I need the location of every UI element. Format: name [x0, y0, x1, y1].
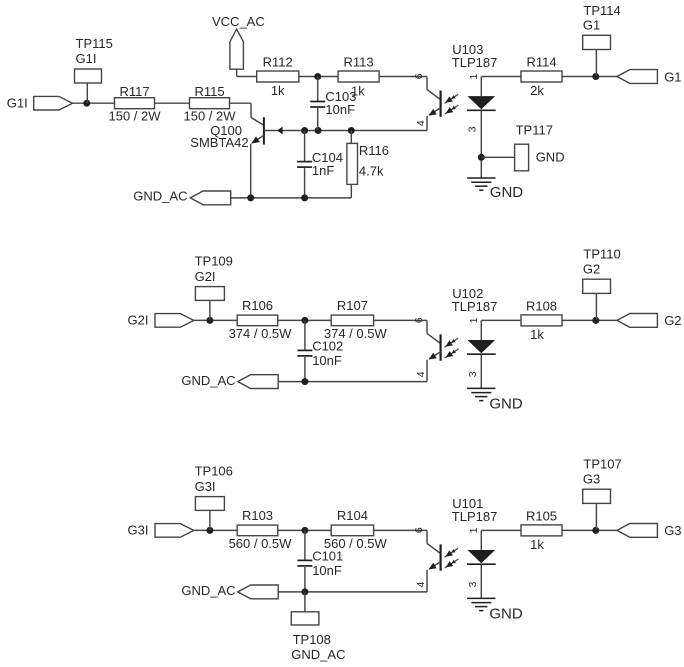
svg-text:4: 4: [415, 120, 427, 126]
svg-text:374 / 0.5W: 374 / 0.5W: [229, 326, 293, 341]
node junction at test point TP106: [206, 527, 213, 534]
svg-text:150 / 2W: 150 / 2W: [183, 109, 236, 124]
wire U101 pin 1 to resistor R105: [481, 529, 521, 531]
U102 LED (photodiode) triangle: [467, 340, 495, 353]
U102 LED cathode bar: [467, 353, 496, 355]
op-amp U103 phototransistor collector lead: [427, 77, 441, 100]
wire R116 bottom lead: [350, 184, 352, 198]
node junction at test point TP114: [592, 73, 599, 80]
svg-text:G2I: G2I: [128, 312, 149, 327]
test point TP114 riser wire: [595, 49, 597, 76]
wire VCC_AC to R112: [237, 69, 257, 76]
capacitor C103 labels: [325, 89, 356, 117]
ground connector GND_AC: [190, 191, 230, 205]
svg-text:G2I: G2I: [195, 269, 216, 284]
svg-text:1: 1: [468, 74, 480, 80]
op-amp U102 phototransistor emitter lead with arrow: [427, 352, 441, 382]
node junction at test point TP110: [592, 317, 599, 324]
svg-text:R112: R112: [263, 55, 293, 70]
wire R113 to optocoupler U103 pin 6: [379, 76, 427, 78]
U103 LED (photodiode) triangle: [467, 96, 495, 109]
op-amp U101 phototransistor base bar: [440, 544, 442, 570]
ground GND symbol: [467, 177, 495, 179]
U101 light arrows: [444, 548, 458, 557]
capacitor C101: [297, 530, 312, 592]
svg-text:SMBTA42: SMBTA42: [190, 135, 248, 150]
svg-text:10nF: 10nF: [325, 102, 355, 117]
node junction at capacitor C102: [301, 317, 308, 324]
test point TP108 riser wire: [304, 592, 306, 612]
svg-text:TLP187: TLP187: [452, 299, 498, 314]
U101 LED cathode bar: [467, 563, 496, 565]
svg-text:TLP187: TLP187: [452, 55, 498, 70]
wire R116 top lead: [350, 131, 352, 144]
svg-text:GND: GND: [536, 150, 565, 165]
svg-text:150 / 2W: 150 / 2W: [108, 109, 161, 124]
svg-text:TP106: TP106: [195, 464, 233, 479]
svg-text:G3I: G3I: [195, 479, 216, 494]
svg-text:GND_AC: GND_AC: [181, 373, 235, 388]
resistor R106: [237, 298, 278, 326]
svg-text:TP110: TP110: [583, 247, 620, 262]
wire R104 to optocoupler: [374, 529, 427, 531]
wire GND_AC rail: [231, 197, 352, 199]
U101 LED anode lead: [480, 530, 482, 550]
wire Q100 emitter to GND_AC rail: [250, 144, 252, 198]
node TP117 junction: [478, 154, 485, 161]
svg-text:R107: R107: [337, 298, 368, 313]
input connector G3I: [155, 524, 194, 538]
svg-text:4: 4: [415, 582, 427, 588]
op-amp U102 phototransistor collector lead: [427, 320, 441, 343]
wire R105 to output connector G3: [562, 529, 617, 531]
ground connector GND_AC: [238, 585, 278, 599]
resistor R113: [338, 55, 379, 82]
capacitor C102: [297, 320, 312, 381]
svg-text:6: 6: [413, 527, 425, 533]
wire R117 to R115: [155, 102, 190, 104]
svg-text:GND: GND: [489, 606, 523, 623]
U102 LED cathode wire to ground: [480, 354, 482, 388]
svg-text:10nF: 10nF: [312, 353, 342, 368]
svg-text:G1I: G1I: [76, 51, 97, 66]
node junction Q100 emitter on GND_AC rail: [247, 194, 254, 201]
svg-text:1k: 1k: [351, 83, 365, 98]
svg-text:4: 4: [415, 371, 427, 377]
svg-text:TP108: TP108: [293, 632, 331, 647]
wire G3I connector to resistor R103: [194, 529, 237, 531]
svg-text:R108: R108: [526, 298, 557, 313]
svg-text:10nF: 10nF: [312, 563, 342, 578]
test point TP115: [75, 36, 113, 83]
svg-text:TP109: TP109: [195, 254, 233, 269]
transistor Q100 emitter arrow: [251, 136, 260, 143]
svg-text:1k: 1k: [530, 537, 544, 552]
node junction R116 on base line: [348, 127, 355, 134]
input connector G1I: [34, 96, 73, 110]
wire U102 pin 1 to resistor R108: [481, 319, 521, 321]
svg-text:1nF: 1nF: [312, 163, 334, 178]
svg-text:G3I: G3I: [128, 522, 149, 537]
svg-text:1: 1: [468, 527, 480, 533]
U102 LED anode lead: [480, 320, 482, 340]
svg-text:GND_AC: GND_AC: [133, 188, 187, 203]
capacitor C101 labels: [312, 549, 343, 579]
svg-text:6: 6: [413, 317, 425, 323]
resistor R104: [331, 508, 373, 536]
svg-text:GND_AC: GND_AC: [291, 647, 345, 662]
svg-text:R114: R114: [526, 55, 556, 70]
test point TP110 riser wire: [595, 293, 597, 320]
resistor R112: [257, 55, 299, 82]
svg-text:C102: C102: [312, 339, 343, 354]
test point TP114: [583, 3, 621, 50]
node junction C104 on base line: [301, 127, 308, 134]
capacitor C103: [310, 77, 325, 131]
wire junction to TP117: [481, 156, 514, 158]
svg-text:R104: R104: [337, 508, 368, 523]
svg-text:4.7k: 4.7k: [359, 163, 384, 178]
wire GND_AC rail: [278, 591, 427, 593]
test point TP110: [583, 247, 621, 294]
ground GND symbol: [467, 597, 495, 599]
test point TP109 riser wire: [209, 300, 211, 320]
op-amp U101 phototransistor emitter lead with arrow: [427, 562, 441, 592]
node junction at test point TP109: [206, 317, 213, 324]
node junction C102 to GND_AC: [301, 378, 308, 385]
svg-text:VCC_AC: VCC_AC: [212, 14, 265, 29]
node junction C103 on base line: [315, 127, 322, 134]
svg-text:TLP187: TLP187: [452, 509, 498, 524]
svg-text:G1I: G1I: [7, 95, 28, 110]
op-amp U101 phototransistor collector lead: [427, 530, 441, 553]
svg-text:GND_AC: GND_AC: [181, 583, 235, 598]
output connector G2: [617, 314, 657, 328]
transistor Q100 labels: [190, 123, 248, 150]
svg-text:TP107: TP107: [583, 457, 621, 472]
svg-text:G2: G2: [583, 262, 600, 277]
capacitor C104 labels: [312, 150, 343, 178]
svg-text:2k: 2k: [530, 83, 544, 98]
resistor R114: [521, 55, 562, 83]
U103 LED cathode bar: [467, 109, 496, 111]
svg-text:3: 3: [467, 582, 479, 588]
svg-text:GND: GND: [489, 396, 523, 413]
node junction at test point TP115: [83, 100, 90, 107]
op-amp U102 phototransistor base bar: [440, 334, 442, 360]
svg-text:C101: C101: [312, 549, 343, 564]
node junction C101 to GND_AC: [301, 588, 308, 595]
svg-text:6: 6: [413, 73, 425, 79]
svg-text:1: 1: [468, 317, 480, 323]
node junction at test point TP107: [592, 527, 599, 534]
node junction at capacitor C101: [301, 527, 308, 534]
ground GND symbol: [467, 387, 495, 389]
op-amp U102 label: [452, 286, 498, 314]
capacitor C104: [297, 131, 312, 198]
wire R112 to R113: [299, 76, 338, 78]
resistor R108: [521, 298, 562, 326]
svg-text:R116: R116: [359, 143, 389, 158]
svg-text:G1: G1: [583, 18, 600, 33]
test point TP107: [583, 457, 622, 504]
test point TP117: [515, 122, 565, 171]
U101 LED cathode wire to ground: [480, 564, 482, 598]
wire R108 to output connector G2: [562, 319, 617, 321]
svg-text:TP114: TP114: [583, 3, 620, 18]
U103 LED cathode wire to ground: [480, 110, 482, 178]
wire GND_AC rail: [278, 381, 427, 383]
svg-text:3: 3: [467, 371, 479, 377]
node junction C103 top: [314, 73, 321, 80]
svg-text:TP115: TP115: [76, 36, 113, 51]
test point TP109: [195, 254, 233, 301]
ground connector GND_AC: [238, 375, 278, 389]
svg-text:GND: GND: [490, 184, 524, 201]
svg-text:G2: G2: [664, 313, 681, 328]
svg-text:R117: R117: [119, 84, 149, 99]
test point TP107 riser wire: [595, 503, 597, 530]
node junction C104 on GND_AC rail: [301, 194, 308, 201]
svg-text:560 / 0.5W: 560 / 0.5W: [229, 536, 293, 551]
op-amp U103 label: [452, 42, 498, 70]
wire R103 to R104: [278, 529, 332, 531]
svg-text:1k: 1k: [271, 83, 285, 98]
resistor R103: [237, 508, 278, 535]
svg-text:R105: R105: [526, 508, 557, 523]
wire R107 to optocoupler: [374, 319, 427, 321]
svg-text:R103: R103: [242, 508, 273, 523]
U101 LED (photodiode) triangle: [467, 550, 495, 563]
svg-text:TP117: TP117: [516, 122, 553, 137]
wire R106 to R107: [278, 319, 332, 321]
resistor R105: [521, 508, 562, 536]
svg-text:G3: G3: [664, 523, 681, 538]
arrow on Q100 base line: [277, 127, 282, 135]
op-amp U101 label: [452, 496, 498, 524]
wire G2I connector to resistor R106: [194, 319, 237, 321]
wire R114 to output connector G1: [562, 76, 617, 78]
wire U103 pin 1 to resistor R114: [481, 76, 521, 78]
transistor Q100: [251, 117, 264, 144]
output connector G1: [617, 70, 657, 84]
capacitor C102 labels: [312, 339, 343, 369]
resistor R107: [331, 298, 373, 326]
svg-text:G3: G3: [583, 472, 600, 487]
power symbol VCC_AC: [230, 29, 244, 69]
svg-text:R113: R113: [344, 55, 374, 70]
svg-text:R106: R106: [242, 298, 273, 313]
U103 light arrows: [444, 94, 458, 103]
test point TP108: [291, 612, 345, 662]
op-amp U103 phototransistor base bar: [440, 91, 442, 117]
svg-text:G1: G1: [664, 69, 681, 84]
wire R115 to transistor Q100 collector: [230, 103, 252, 117]
wire Q100 base line to optocoupler pin 4: [265, 130, 427, 132]
op-amp U103 phototransistor emitter lead with arrow: [427, 108, 441, 131]
wire G1I connector to resistor R117: [73, 102, 115, 104]
input connector G2I: [155, 314, 194, 328]
svg-text:3: 3: [467, 126, 479, 132]
test point TP115 riser wire: [86, 83, 88, 103]
output connector G3: [617, 524, 657, 538]
test point TP106: [195, 464, 233, 511]
test point TP106 riser wire: [209, 510, 211, 530]
U103 LED anode lead: [480, 77, 482, 97]
svg-text:1k: 1k: [530, 327, 544, 342]
resistor R115: [190, 84, 230, 109]
U102 light arrows: [444, 338, 458, 347]
resistor R117: [115, 84, 155, 109]
resistor R116: [347, 143, 389, 184]
svg-text:R115: R115: [194, 84, 224, 99]
